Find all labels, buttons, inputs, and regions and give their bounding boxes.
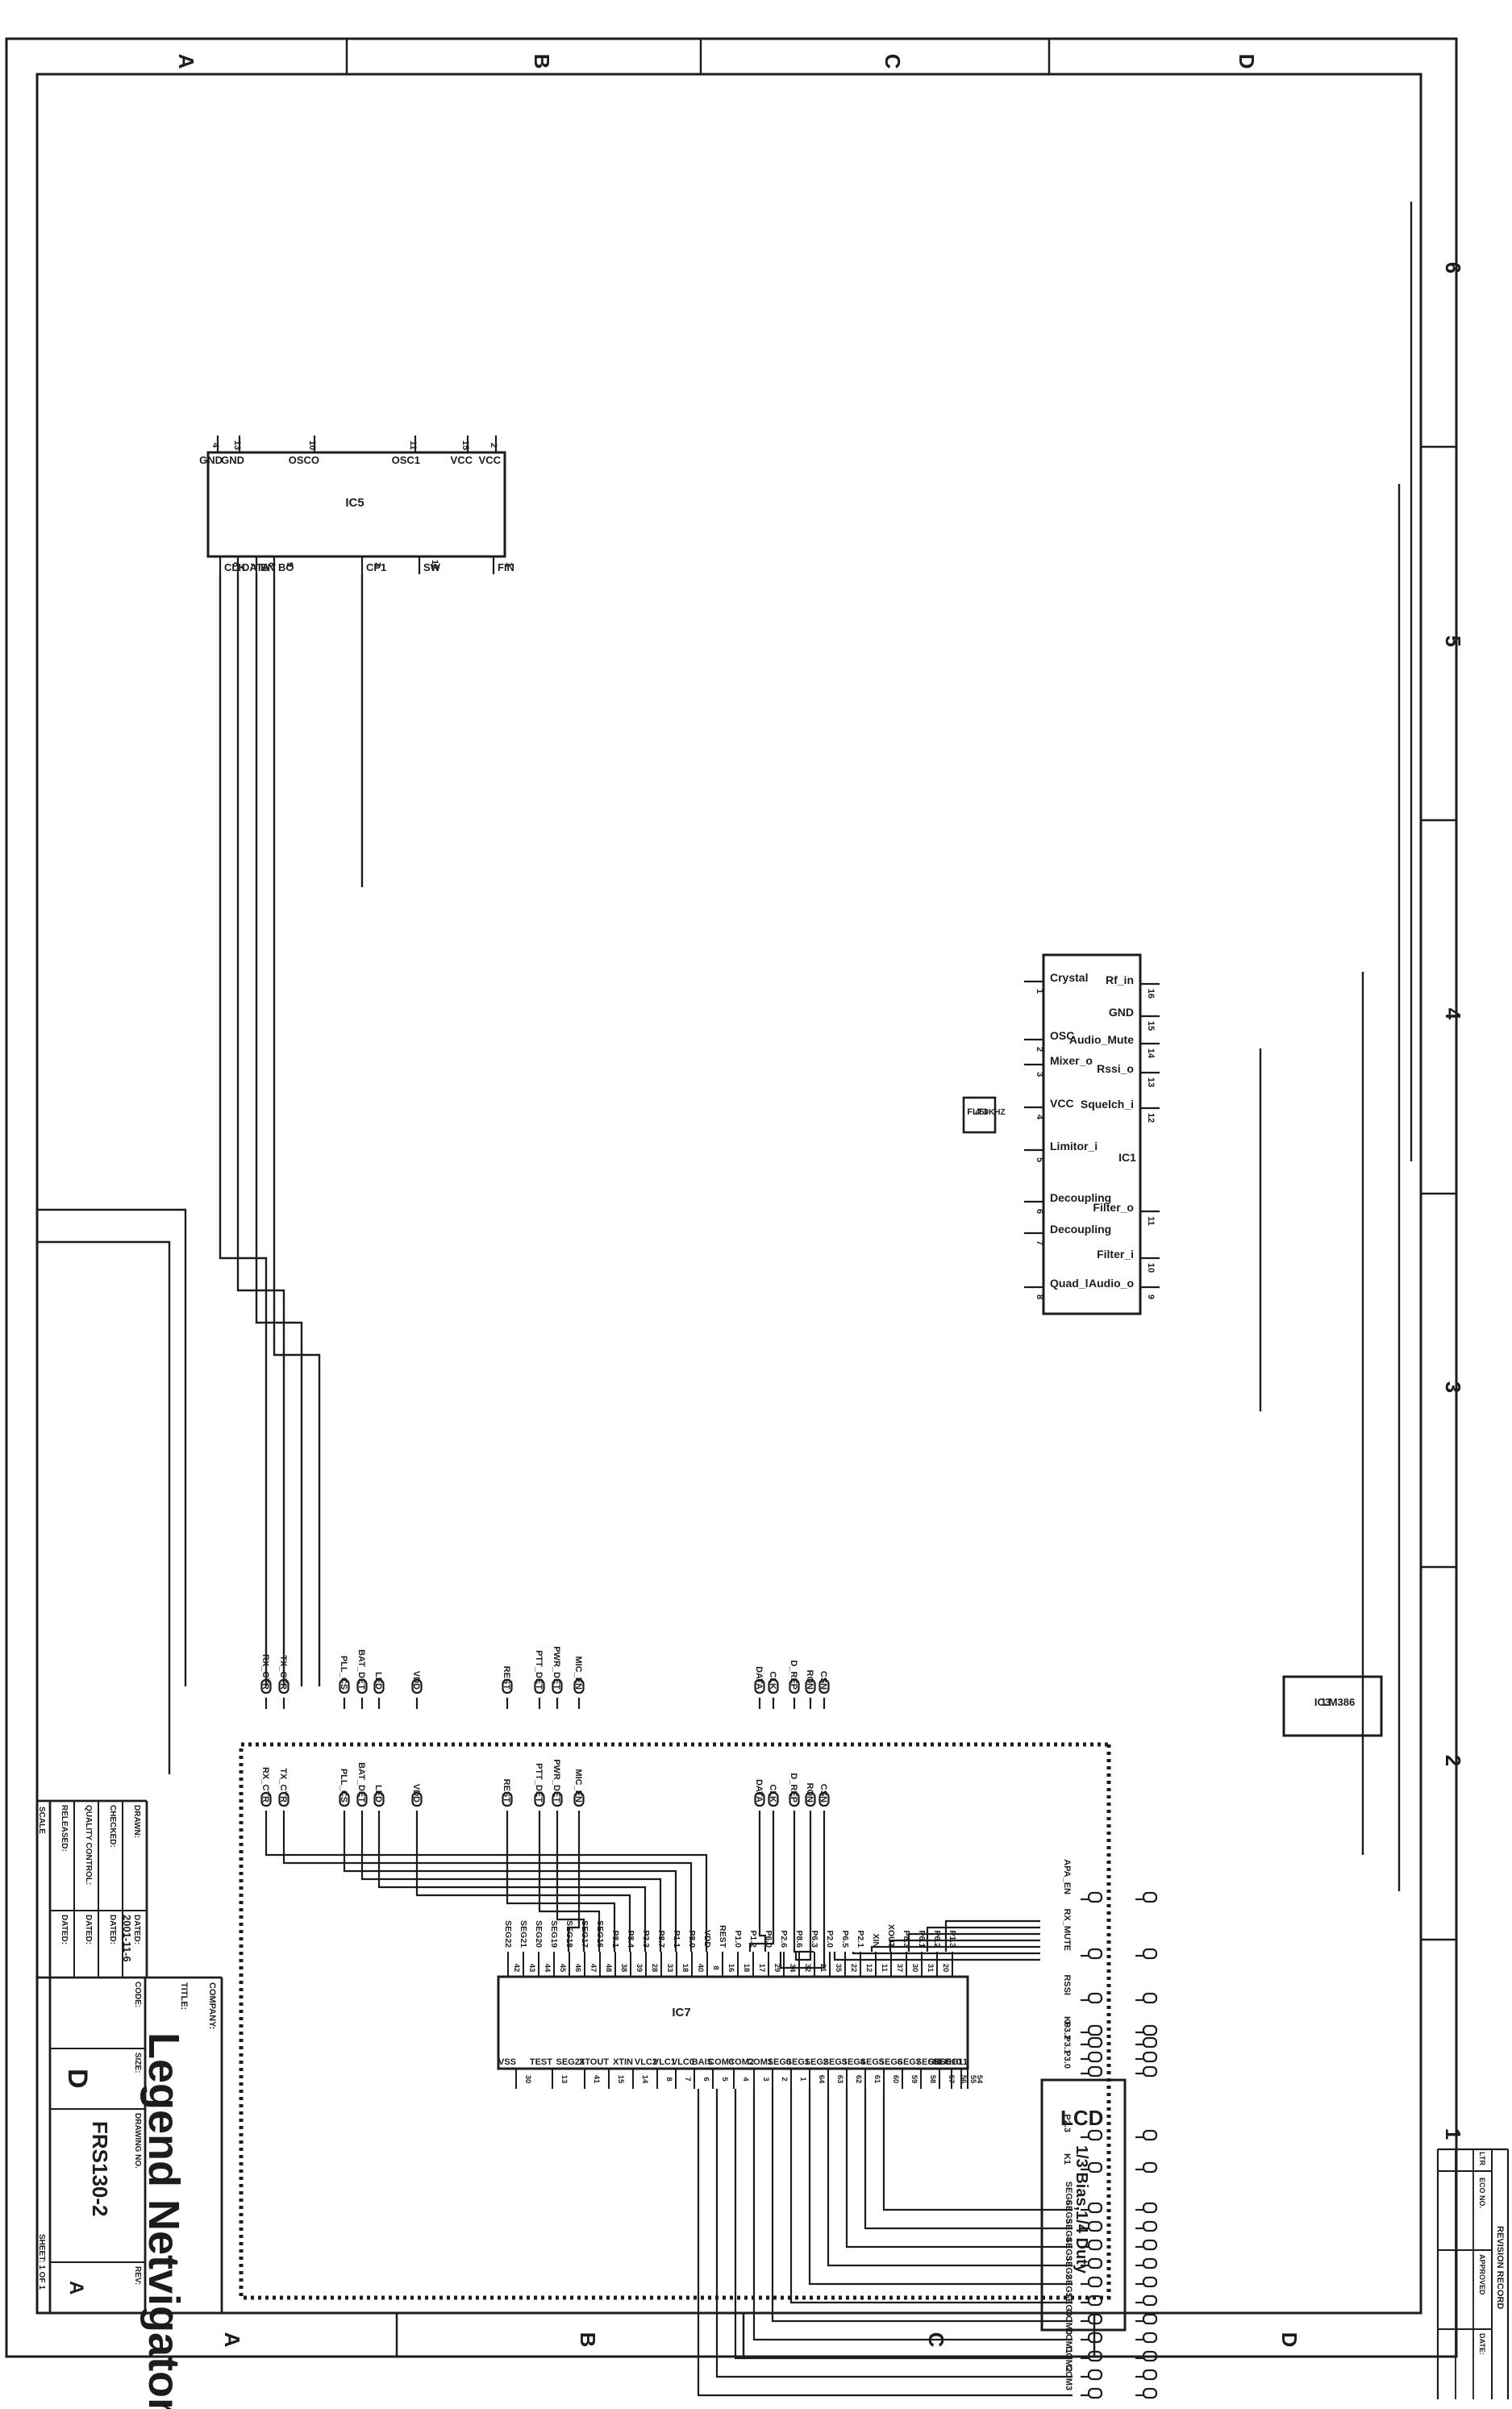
svg-text:P2.6: P2.6	[779, 1930, 789, 1948]
svg-text:PLL_CS: PLL_CS	[339, 1769, 348, 1803]
svg-text:15: 15	[1146, 1021, 1156, 1031]
svg-text:40: 40	[696, 1964, 705, 1973]
svg-text:DATA: DATA	[754, 1779, 764, 1803]
svg-text:SIZE:: SIZE:	[133, 2053, 142, 2073]
svg-text:COMPANY:: COMPANY:	[207, 1982, 217, 2029]
svg-text:DATED:: DATED:	[108, 1915, 117, 1944]
svg-text:3: 3	[1035, 1072, 1044, 1077]
svg-text:CODE:: CODE:	[133, 1982, 142, 2007]
svg-text:TEST: TEST	[530, 2057, 552, 2067]
svg-text:VSS: VSS	[498, 2057, 516, 2067]
svg-text:10: 10	[1146, 1263, 1156, 1273]
svg-text:3: 3	[761, 2077, 770, 2081]
svg-text:DRAWING NO.: DRAWING NO.	[133, 2113, 142, 2169]
svg-text:13: 13	[232, 440, 242, 450]
svg-text:12: 12	[1146, 1113, 1156, 1123]
svg-text:QUALITY CONTROL:: QUALITY CONTROL:	[84, 1805, 93, 1885]
svg-text:LED: LED	[373, 1785, 383, 1803]
svg-text:CSN: CSN	[818, 1784, 828, 1803]
svg-text:TX_CTR: TX_CTR	[278, 1768, 288, 1803]
svg-text:54: 54	[975, 2075, 984, 2084]
svg-text:63: 63	[835, 2075, 844, 2084]
svg-text:Crystal: Crystal	[1050, 971, 1088, 984]
svg-text:12: 12	[864, 1964, 873, 1973]
svg-text:DATED:: DATED:	[84, 1915, 93, 1944]
svg-text:37: 37	[895, 1964, 904, 1973]
svg-text:D: D	[1235, 54, 1259, 69]
svg-text:IC1: IC1	[1118, 1151, 1136, 1164]
svg-text:SEG20: SEG20	[534, 1920, 544, 1948]
svg-text:C: C	[881, 54, 905, 69]
svg-text:P2.1: P2.1	[856, 1930, 865, 1948]
svg-text:1: 1	[1441, 2128, 1465, 2140]
svg-text:35: 35	[834, 1964, 843, 1973]
svg-text:4: 4	[1035, 1115, 1044, 1120]
svg-text:4: 4	[1441, 1008, 1465, 1020]
svg-text:P6.2: P6.2	[932, 1930, 942, 1948]
svg-text:14: 14	[1146, 1048, 1156, 1059]
svg-text:GND: GND	[199, 454, 223, 466]
svg-text:IC7: IC7	[672, 2006, 690, 2019]
svg-text:2: 2	[489, 443, 498, 448]
svg-text:56: 56	[959, 2075, 968, 2084]
svg-text:61: 61	[873, 2075, 881, 2084]
svg-text:1: 1	[798, 2077, 807, 2082]
svg-text:8: 8	[1035, 1294, 1044, 1299]
svg-text:DRAWN:: DRAWN:	[132, 1805, 141, 1838]
svg-text:47: 47	[589, 1964, 598, 1973]
svg-text:6: 6	[231, 562, 240, 567]
svg-text:20: 20	[941, 1964, 950, 1973]
svg-text:VDD: VDD	[411, 1671, 421, 1690]
svg-text:P6.1: P6.1	[917, 1930, 927, 1948]
svg-text:RX_CTR: RX_CTR	[260, 1767, 270, 1803]
svg-text:PWR_DET: PWR_DET	[552, 1646, 561, 1690]
svg-text:Rf_in: Rf_in	[1106, 973, 1134, 986]
svg-text:REST: REST	[718, 1925, 727, 1948]
svg-text:RON: RON	[805, 1670, 814, 1690]
svg-text:42: 42	[512, 1964, 521, 1973]
svg-text:DATE:: DATE:	[1478, 2333, 1486, 2355]
svg-text:31: 31	[926, 1964, 935, 1973]
svg-text:VCC: VCC	[1050, 1097, 1074, 1110]
svg-text:Limitor_i: Limitor_i	[1050, 1140, 1098, 1152]
svg-text:D_REP: D_REP	[789, 1773, 798, 1803]
svg-text:62: 62	[854, 2075, 863, 2084]
svg-text:CSN: CSN	[818, 1671, 828, 1690]
svg-text:4: 4	[210, 443, 220, 448]
svg-text:BAT_DET: BAT_DET	[356, 1649, 366, 1690]
svg-text:17: 17	[757, 1964, 766, 1973]
svg-text:64: 64	[817, 2075, 826, 2084]
svg-text:PTT_DET: PTT_DET	[534, 1763, 544, 1803]
svg-text:2001-11-6: 2001-11-6	[121, 1915, 133, 1962]
svg-text:SHEET: 1 OF 1: SHEET: 1 OF 1	[37, 2234, 46, 2290]
svg-text:39: 39	[635, 1964, 644, 1973]
svg-text:18: 18	[742, 1964, 751, 1973]
svg-text:APPROVED: APPROVED	[1478, 2254, 1486, 2295]
svg-text:RON: RON	[805, 1783, 814, 1803]
svg-text:7: 7	[683, 2077, 692, 2081]
svg-text:16: 16	[1146, 989, 1156, 998]
svg-text:MIC_EN: MIC_EN	[573, 1656, 583, 1690]
svg-text:XIN: XIN	[871, 1933, 881, 1948]
svg-text:Audio_o: Audio_o	[1089, 1277, 1134, 1290]
svg-text:6: 6	[702, 2077, 710, 2081]
svg-text:60: 60	[891, 2075, 900, 2084]
svg-text:PTT_DET: PTT_DET	[534, 1650, 544, 1690]
svg-text:RELEASED:: RELEASED:	[60, 1805, 69, 1852]
svg-text:BAT_DET: BAT_DET	[356, 1762, 366, 1803]
svg-text:Decoupling: Decoupling	[1050, 1223, 1111, 1236]
svg-text:14: 14	[640, 2075, 649, 2084]
svg-text:450KHZ: 450KHZ	[975, 1108, 1005, 1117]
svg-text:SEG11: SEG11	[939, 2057, 968, 2067]
svg-text:SEG19: SEG19	[549, 1920, 559, 1948]
svg-text:Squelch_i: Squelch_i	[1081, 1098, 1134, 1111]
svg-text:CLK: CLK	[768, 1671, 777, 1690]
svg-text:3: 3	[1441, 1382, 1465, 1393]
svg-text:REV:: REV:	[133, 2266, 142, 2285]
svg-text:1: 1	[1035, 989, 1044, 994]
svg-text:33: 33	[665, 1964, 674, 1973]
svg-text:RSSI: RSSI	[1062, 1974, 1072, 1995]
svg-text:Mixer_o: Mixer_o	[1050, 1054, 1093, 1067]
svg-text:VCC: VCC	[451, 454, 473, 466]
svg-text:8: 8	[267, 562, 277, 567]
svg-text:IC5: IC5	[345, 496, 364, 510]
svg-text:8: 8	[664, 2077, 673, 2081]
svg-text:P2.0: P2.0	[825, 1930, 835, 1948]
svg-text:APA_EN: APA_EN	[1062, 1859, 1072, 1894]
svg-text:DATED:: DATED:	[60, 1915, 69, 1944]
svg-text:28: 28	[650, 1964, 659, 1973]
svg-text:SEG22: SEG22	[503, 1920, 513, 1948]
svg-text:RX_MUTE: RX_MUTE	[1062, 1908, 1072, 1951]
svg-text:ECO NO.: ECO NO.	[1478, 2178, 1486, 2208]
svg-text:11: 11	[408, 440, 418, 450]
svg-text:P1.0: P1.0	[733, 1930, 743, 1948]
svg-text:VCC: VCC	[479, 454, 502, 466]
svg-text:46: 46	[573, 1964, 582, 1973]
svg-text:48: 48	[604, 1964, 613, 1973]
svg-text:A: A	[220, 2332, 244, 2348]
svg-text:Legend Netvigator: Legend Netvigator	[140, 2032, 188, 2409]
svg-text:Filter_i: Filter_i	[1097, 1248, 1134, 1261]
svg-text:PWR_DET: PWR_DET	[552, 1759, 561, 1803]
svg-text:P8.6: P8.6	[794, 1930, 804, 1948]
svg-text:38: 38	[619, 1964, 628, 1973]
svg-text:15: 15	[460, 440, 470, 450]
svg-text:LM386: LM386	[1322, 1696, 1355, 1708]
svg-text:1: 1	[504, 562, 514, 567]
svg-text:3: 3	[373, 562, 382, 567]
svg-text:REVISION RECORD: REVISION RECORD	[1495, 2226, 1505, 2309]
svg-text:58: 58	[928, 2075, 937, 2084]
svg-text:PLL_CS: PLL_CS	[339, 1656, 348, 1690]
svg-text:OSCO: OSCO	[289, 454, 319, 466]
svg-text:P2.3: P2.3	[1062, 2114, 1072, 2132]
svg-text:15: 15	[616, 2075, 625, 2084]
svg-text:K1: K1	[1062, 2153, 1072, 2165]
svg-text:5: 5	[1441, 636, 1465, 647]
svg-text:CLK: CLK	[768, 1784, 777, 1803]
svg-text:5: 5	[1035, 1157, 1044, 1162]
svg-text:GND: GND	[1109, 1006, 1134, 1019]
svg-text:13: 13	[1146, 1077, 1156, 1087]
svg-text:MIC_EN: MIC_EN	[573, 1769, 583, 1803]
svg-text:P6.5: P6.5	[840, 1930, 850, 1948]
svg-text:43: 43	[527, 1964, 536, 1973]
svg-text:59: 59	[910, 2075, 918, 2084]
svg-text:OSC1: OSC1	[392, 454, 420, 466]
svg-text:2: 2	[780, 2077, 789, 2081]
svg-text:P8.3: P8.3	[902, 1930, 911, 1948]
svg-text:SEG21: SEG21	[519, 1920, 528, 1948]
svg-text:FRS130-2: FRS130-2	[88, 2121, 112, 2217]
svg-text:44: 44	[543, 1964, 552, 1973]
svg-text:5: 5	[720, 2077, 729, 2082]
svg-text:LED: LED	[373, 1672, 383, 1690]
svg-text:11: 11	[1146, 1216, 1156, 1226]
svg-text:LTR: LTR	[1478, 2152, 1486, 2165]
svg-text:30: 30	[523, 2075, 532, 2084]
svg-text:22: 22	[849, 1964, 858, 1973]
svg-text:11: 11	[880, 1964, 889, 1973]
svg-text:10: 10	[307, 440, 317, 450]
svg-text:2: 2	[1441, 1755, 1465, 1766]
svg-text:12: 12	[430, 560, 439, 569]
svg-text:18: 18	[681, 1964, 689, 1973]
svg-text:XTIN: XTIN	[613, 2057, 633, 2067]
svg-text:REST: REST	[502, 1779, 511, 1803]
svg-text:2: 2	[1035, 1047, 1044, 1052]
svg-text:6: 6	[1441, 262, 1465, 273]
svg-text:TITLE:: TITLE:	[179, 1982, 189, 2010]
svg-text:DATA: DATA	[754, 1666, 764, 1690]
svg-text:SCALE: SCALE	[37, 1807, 46, 1834]
svg-text:30: 30	[910, 1964, 919, 1973]
svg-text:A: A	[65, 2281, 87, 2294]
svg-text:P3.0: P3.0	[1062, 2050, 1072, 2069]
svg-text:16: 16	[727, 1964, 735, 1973]
svg-text:9: 9	[1146, 1294, 1156, 1299]
svg-text:Quad_l: Quad_l	[1050, 1277, 1088, 1290]
svg-text:9: 9	[285, 562, 294, 567]
svg-text:4: 4	[741, 2077, 750, 2082]
svg-text:D_REP: D_REP	[789, 1660, 798, 1690]
svg-text:GND: GND	[221, 454, 244, 466]
svg-text:7: 7	[1035, 1240, 1044, 1245]
svg-text:45: 45	[558, 1964, 567, 1973]
svg-text:Audio_Mute: Audio_Mute	[1069, 1033, 1134, 1046]
svg-text:REST: REST	[502, 1666, 511, 1690]
svg-text:COM3: COM3	[1064, 2365, 1073, 2390]
svg-text:13: 13	[560, 2075, 569, 2084]
svg-text:D: D	[1277, 2332, 1302, 2348]
svg-text:XTOUT: XTOUT	[579, 2057, 609, 2067]
svg-text:Rssi_o: Rssi_o	[1097, 1062, 1134, 1075]
svg-text:VDD: VDD	[411, 1784, 421, 1803]
svg-text:P1.3: P1.3	[948, 1930, 957, 1948]
svg-text:6: 6	[1035, 1209, 1044, 1214]
svg-text:B: B	[576, 2332, 600, 2348]
svg-text:CHECKED:: CHECKED:	[108, 1805, 117, 1848]
svg-text:Filter_o: Filter_o	[1093, 1201, 1134, 1214]
svg-text:B: B	[530, 54, 554, 69]
svg-text:8: 8	[711, 1965, 720, 1969]
svg-text:A: A	[174, 54, 198, 69]
svg-text:D: D	[62, 2069, 93, 2089]
svg-text:41: 41	[592, 2075, 601, 2084]
